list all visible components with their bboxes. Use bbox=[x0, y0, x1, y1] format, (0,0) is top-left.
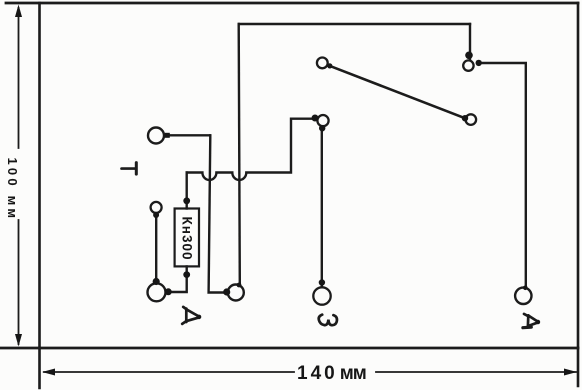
wire pad 2 to pad 3 bbox=[155, 214, 157, 281]
svg-text:100 мм: 100 мм bbox=[5, 158, 20, 219]
pad 7 bottom blob bbox=[319, 125, 325, 131]
pad 5 Z bbox=[313, 287, 330, 304]
board outline left edge bbox=[38, 3, 41, 388]
wire pad 7 down to pad Z bbox=[321, 127, 323, 287]
junction dot Kn300 bottom bbox=[183, 271, 190, 278]
pad 8 stub bbox=[327, 63, 332, 68]
svg-text:140мм: 140мм bbox=[297, 363, 366, 384]
board outline right edge bbox=[577, 3, 580, 386]
pad 10 left junction dot bbox=[462, 115, 468, 121]
pad 3 bbox=[148, 283, 166, 301]
pad 9 top junction dot bbox=[465, 52, 473, 60]
pad 8 top diagonal start bbox=[317, 58, 328, 69]
wire pad T to vertical drop bbox=[169, 134, 210, 136]
pad 6 top blob bbox=[523, 286, 528, 291]
label T (rotated) bbox=[122, 163, 137, 175]
pad 2 bbox=[151, 202, 162, 213]
label D bottom-center (rotated) bbox=[182, 307, 201, 324]
board outline bottom edge bbox=[0, 347, 578, 350]
pad 5 top blob bbox=[319, 279, 325, 285]
pad 6 D right bbox=[515, 288, 531, 304]
pad 4 left junction dot bbox=[223, 288, 230, 295]
pad 3 right junction dot bbox=[165, 288, 172, 295]
jumper wire with two dips bbox=[187, 119, 312, 180]
wire vertical from pad T down to pad D1 area bbox=[209, 135, 227, 292]
vertical dimension line 100mm bbox=[18, 8, 20, 344]
junction dot Kn300 top bbox=[183, 197, 190, 204]
wire from Kn300 bottom to pad 3 bbox=[170, 266, 187, 292]
pad 1 stub bbox=[165, 133, 170, 138]
diagonal wire pad 8 to pad 10 bbox=[330, 66, 466, 118]
svg-text:Кн300: Кн300 bbox=[179, 217, 194, 261]
label Z (rotated) bbox=[319, 315, 337, 326]
pad 1 T bbox=[148, 128, 164, 144]
vertical dimension arrowhead down bbox=[15, 334, 22, 347]
pad 7 left junction dot bbox=[312, 115, 319, 122]
wire top horizontal run bbox=[239, 23, 470, 25]
horizontal dimension line 140mm bbox=[44, 371, 576, 373]
pad 7 bbox=[317, 115, 328, 126]
wire vertical from top run down to pad D1 bbox=[239, 24, 240, 284]
wire stub from jumper down to Kn300 top bbox=[185, 173, 187, 209]
horizontal dimension arrowhead right bbox=[564, 369, 577, 376]
pad 2 bottom blob bbox=[153, 212, 159, 218]
pad 9 top right bbox=[463, 60, 473, 70]
component Kn300 body bbox=[175, 209, 199, 267]
pad 4 top blob bbox=[237, 283, 242, 288]
board outline top edge bbox=[6, 2, 578, 5]
pad 9 right junction dot bbox=[476, 60, 482, 66]
vertical dimension arrowhead up bbox=[15, 5, 22, 18]
pad 4 D bbox=[228, 285, 244, 301]
label D right (rotated) bbox=[523, 314, 540, 328]
pad 10 diagonal end bbox=[466, 114, 477, 125]
wire from pad 9 right to board right drop bbox=[481, 63, 526, 286]
horizontal dimension arrowhead left bbox=[42, 369, 55, 376]
pad 3 top junction dot bbox=[153, 278, 160, 285]
wire from top run corner down to pad 9 bbox=[469, 24, 471, 59]
